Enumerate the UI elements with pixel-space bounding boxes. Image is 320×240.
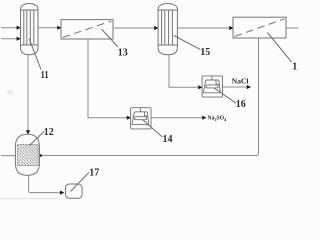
label 14 leader	[143, 120, 163, 138]
wire left feed into 12	[1, 155, 15, 157]
label 12 leader	[30, 132, 45, 146]
faint scan streak bottom edge	[0, 198, 58, 199]
label 11 leader	[29, 39, 41, 70]
svg-text:1: 1	[292, 61, 297, 72]
evaporator 13 box	[61, 20, 113, 39]
wire feed input 1 into 11	[1, 27, 18, 29]
heat exchanger 11 shell	[21, 3, 39, 54]
arrowhead into 15	[154, 26, 158, 30]
arrowhead into 11 lower feed	[17, 37, 21, 41]
tubes of 15	[161, 10, 163, 45]
faint scan smudge left edge	[7, 91, 14, 95]
dashed diagonal of 13	[63, 21, 112, 37]
svg-text:NaCl: NaCl	[232, 77, 249, 86]
label 15 leader	[174, 36, 200, 50]
wire 1 bottom to rail to 12	[41, 38, 259, 156]
arrowhead into 11 top feed	[17, 26, 21, 30]
arrowhead down into 12	[26, 130, 30, 134]
crystallizer 14	[131, 108, 151, 129]
wire 11 to 13	[38, 27, 58, 29]
svg-text:Na2SO4: Na2SO4	[208, 115, 227, 122]
wire 1 output right	[286, 27, 299, 29]
svg-text:17: 17	[89, 168, 99, 179]
wire 14 to Na2SO4 outlet	[151, 117, 203, 119]
svg-text:13: 13	[118, 48, 128, 59]
wire 13 bottom to 14	[88, 39, 128, 118]
arrowhead into 14	[127, 116, 131, 120]
arrowhead into 1	[229, 26, 233, 30]
collector 17 box	[66, 184, 83, 198]
arrowhead into 13	[57, 26, 61, 30]
arrowhead Na2SO4	[202, 116, 206, 120]
label 1 leader	[268, 33, 292, 63]
dashed diagonal of 1	[235, 19, 285, 37]
heat exchanger 15 shell	[158, 4, 177, 55]
wire 11 bottom down to 12	[27, 55, 29, 131]
wire 12 bottom to 17	[29, 175, 61, 192]
reactor 12 vessel	[15, 134, 39, 175]
wire 16 to NaCl outlet	[223, 86, 248, 88]
crystallizer 16	[202, 76, 222, 97]
svg-text:16: 16	[236, 99, 246, 110]
svg-text:11: 11	[41, 70, 49, 81]
svg-text:15: 15	[200, 47, 210, 58]
wire 15 to 1	[177, 27, 230, 29]
svg-text:12: 12	[44, 127, 54, 138]
arrowhead NaCl	[247, 85, 251, 89]
condenser 1 box	[233, 17, 286, 38]
junction dot at 12 right wall	[39, 154, 42, 157]
wire 13 to 15	[113, 27, 155, 29]
wire feed input 2 into 11	[1, 38, 18, 40]
tubes of 11	[23, 10, 25, 45]
label 17 leader	[71, 172, 90, 191]
label 13 leader	[102, 29, 119, 47]
arrowhead into 16	[198, 85, 202, 89]
wire 15 bottom to 16	[169, 55, 199, 88]
label 16 leader	[214, 88, 236, 103]
arrowhead into 17	[60, 191, 64, 195]
svg-text:14: 14	[163, 134, 173, 145]
reactor 12 hatched bed	[18, 144, 39, 165]
